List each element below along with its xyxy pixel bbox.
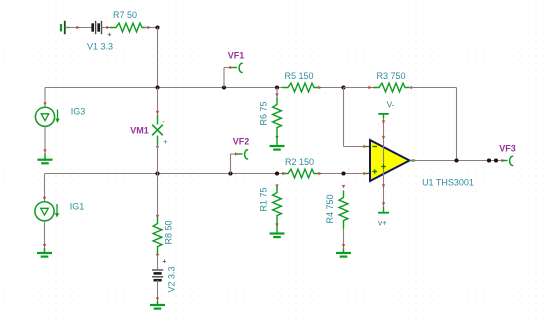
ground below IG3 [38, 154, 53, 164]
resistor R8 50 [153, 217, 162, 255]
wire R1 to ground [276, 224, 278, 234]
label R4 750 [325, 194, 335, 223]
op-amp minus input mark [373, 146, 378, 148]
node rail2/R1 tap [275, 171, 279, 175]
pin arrow R8 bottom [156, 254, 159, 258]
current arrow [147, 26, 151, 29]
pin arrow IG3 top [43, 102, 46, 106]
node rail1/feedback (R5-R3 junction) [341, 85, 345, 89]
svg-text:-: - [162, 117, 165, 126]
pin arrow - input [363, 145, 367, 148]
VM1 minus mark [162, 117, 165, 126]
wire rail2 to R8 [157, 174, 159, 217]
label VF2 [233, 137, 250, 147]
battery V1 3.3 [93, 21, 102, 34]
probe VF1 [239, 63, 242, 72]
wire node down to rail1 [157, 28, 159, 88]
pin arrow IG3 bottom [43, 149, 46, 153]
pin arrow R4 bottom [342, 244, 345, 248]
ground G1 (rotated left) at V1 negative terminal [61, 21, 70, 34]
svg-text:IG3: IG3 [71, 107, 86, 117]
node rail2/VF2 tap [228, 171, 232, 175]
battery V2 plus sign [162, 256, 167, 265]
wire feedback node to - input [344, 88, 367, 147]
ground below R4 [336, 248, 351, 256]
wire V1 to R7 [102, 27, 113, 29]
V- terminal [378, 114, 388, 119]
pin arrow VF3 [501, 159, 505, 162]
pin arrow + input [363, 172, 367, 175]
resistor R2 150 [282, 169, 318, 178]
label IG3 [71, 107, 86, 117]
svg-text:R7 50: R7 50 [113, 10, 137, 20]
resistor R4 750 [339, 191, 348, 229]
current source IG3 [35, 107, 59, 126]
pin arrow VM1 top [156, 111, 159, 115]
node output extra 2 [494, 158, 498, 162]
probe lead VF3 [502, 160, 508, 162]
wire rail2 to IG1 [44, 174, 46, 202]
pin arrow R2 right [318, 172, 322, 175]
probe VF2 [245, 150, 248, 159]
current arrow on wire [76, 26, 80, 29]
resistor R7 50 [110, 23, 146, 32]
resistor R6 75 [273, 98, 282, 136]
V+ terminal [378, 207, 389, 213]
node rail2/VM1 column [155, 171, 159, 175]
battery V2 3.3 [152, 270, 163, 280]
label R8 50 [164, 220, 174, 244]
svg-text:R5 150: R5 150 [284, 71, 313, 81]
pin arrow VF2 [235, 152, 239, 155]
pin arrow output [412, 159, 416, 162]
svg-text:V2 3.3: V2 3.3 [167, 266, 177, 292]
resistor R5 150 [282, 83, 318, 92]
pin arrow R1 bottom [275, 223, 278, 227]
wire rail1 to R6 [276, 88, 278, 98]
node rail1/R6 tap [275, 85, 279, 89]
input stub - [366, 146, 370, 148]
pin arrow R3 right [410, 86, 414, 89]
ground below IG1 [37, 248, 52, 257]
pin arrow R4 top [342, 185, 345, 189]
svg-text:+: + [163, 137, 168, 146]
svg-text:v+: v+ [378, 219, 387, 228]
svg-text:R1 75: R1 75 [259, 187, 269, 211]
op-amp V- power stem [383, 118, 385, 160]
pin arrow V- near triangle [382, 136, 385, 140]
wire VF2 tap [231, 154, 238, 174]
pin arrow VM1 bottom [156, 146, 159, 150]
pin arrow VF1 [229, 66, 233, 69]
label VF3 [499, 144, 516, 154]
wire feedback vertical [456, 88, 458, 161]
pin arrow V+ near triangle [382, 184, 385, 188]
wire R6 to ground [276, 136, 278, 146]
op-amp plus input mark [373, 169, 378, 173]
ground below V2 [150, 301, 165, 309]
pin arrow V2 bottom [156, 297, 159, 301]
input stub + [366, 172, 370, 174]
wire VF1 tap [224, 68, 232, 88]
svg-text:U1 THS3001: U1 THS3001 [422, 178, 474, 188]
resistor R3 750 [373, 83, 409, 92]
svg-text:R3 750: R3 750 [376, 71, 405, 81]
ground below R6 [270, 146, 285, 150]
svg-text:V-: V- [387, 101, 395, 110]
wire rail1 to IG3 [44, 88, 46, 108]
svg-text:VM1: VM1 [130, 126, 149, 136]
current arrow [106, 26, 110, 29]
op-amp V+ power stem [383, 160, 385, 207]
wire ground to V1 [65, 27, 92, 29]
pin arrow R1 top [275, 184, 278, 188]
svg-text:VF2: VF2 [233, 137, 250, 147]
node rail1/VF1 tap [222, 85, 226, 89]
VM1 plus mark [163, 137, 168, 146]
wire output [412, 160, 504, 162]
voltmeter VM1 [152, 115, 163, 145]
node output extra 1 [487, 158, 491, 162]
svg-text:+: + [162, 256, 167, 265]
wire R3 to feedback corner [409, 87, 457, 89]
label V2 3.3 [167, 266, 177, 292]
wire rail1 left segment [45, 87, 282, 89]
wire rail2 [45, 173, 283, 175]
pin arrow R3 left [368, 86, 372, 89]
current source IG1 [35, 202, 59, 221]
pin arrow R6 top [275, 93, 278, 97]
label V1 3.3 [87, 42, 113, 52]
pin arrow R8 top [156, 215, 159, 219]
svg-text:+: + [107, 30, 112, 39]
svg-text:R2 150: R2 150 [285, 157, 314, 167]
op-amp power plus mark [381, 164, 386, 168]
label R2 150 [285, 157, 314, 167]
probe lead VF1 [232, 67, 237, 69]
label R5 150 [284, 71, 313, 81]
wire IG1 to ground [44, 221, 46, 248]
wire rail1 R5-to-node segment [318, 87, 344, 89]
label R6 75 [259, 101, 269, 125]
pin arrow IG1 bottom [43, 244, 46, 248]
node output/feedback [454, 158, 458, 162]
label U1 THS3001 [422, 178, 474, 188]
battery V1 plus sign [107, 30, 112, 39]
output stub [410, 160, 417, 162]
label R7 50 [113, 10, 137, 20]
svg-text:IG1: IG1 [70, 202, 85, 212]
label R1 75 [259, 187, 269, 211]
label VF1 [228, 51, 245, 61]
wire node to R3 [344, 87, 374, 89]
pin arrow V- stem [382, 120, 385, 124]
op-amp U1 THS3001 triangle [370, 140, 410, 181]
label R3 750 [376, 71, 405, 81]
wire R7 to node [144, 27, 158, 29]
pin arrow V+ stem [382, 202, 385, 206]
pin arrow R5 right [318, 86, 322, 89]
node rail1/VM1 column [155, 85, 159, 89]
wire rail2 to + input [344, 173, 367, 175]
pin arrow R2 left [282, 172, 286, 175]
wire V2 to ground [157, 280, 159, 301]
pin arrow R6 bottom [275, 136, 278, 140]
wire R8 to V2 [157, 255, 159, 270]
label v+ [378, 219, 387, 228]
wire rail2 right segment [318, 173, 344, 175]
probe lead VF2 [237, 153, 243, 155]
label VM1 [130, 126, 149, 136]
wire R4 to ground [343, 229, 345, 249]
node at R7/V1 output [155, 25, 159, 29]
pin arrow IG1 top [43, 197, 46, 201]
svg-text:VF3: VF3 [499, 144, 516, 154]
svg-text:V1 3.3: V1 3.3 [87, 42, 113, 52]
resistor R1 75 [273, 186, 282, 224]
label IG1 [70, 202, 85, 212]
node rail2/R4 tap [341, 171, 345, 175]
probe VF3 [510, 156, 513, 165]
wire VM1 top [157, 88, 159, 116]
wire IG3 to ground [44, 126, 46, 153]
svg-text:R8 50: R8 50 [164, 220, 174, 244]
svg-text:R4 750: R4 750 [325, 194, 335, 223]
ground below R1 [270, 234, 285, 238]
label V- [387, 101, 395, 110]
svg-text:VF1: VF1 [228, 51, 245, 61]
wire VM1 bottom [157, 145, 159, 174]
svg-text:R6 75: R6 75 [259, 101, 269, 125]
